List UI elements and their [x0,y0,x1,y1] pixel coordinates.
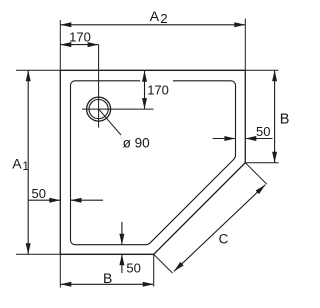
svg-text:A2: A2 [150,8,168,26]
svg-text:50: 50 [32,186,46,201]
svg-text:170: 170 [147,83,169,98]
svg-text:50: 50 [126,261,140,276]
svg-text:B: B [103,270,112,286]
svg-text:170: 170 [69,29,91,44]
svg-text:ø 90: ø 90 [123,136,150,151]
svg-text:B: B [280,111,290,127]
svg-text:50: 50 [256,124,270,139]
svg-text:C: C [219,232,229,247]
